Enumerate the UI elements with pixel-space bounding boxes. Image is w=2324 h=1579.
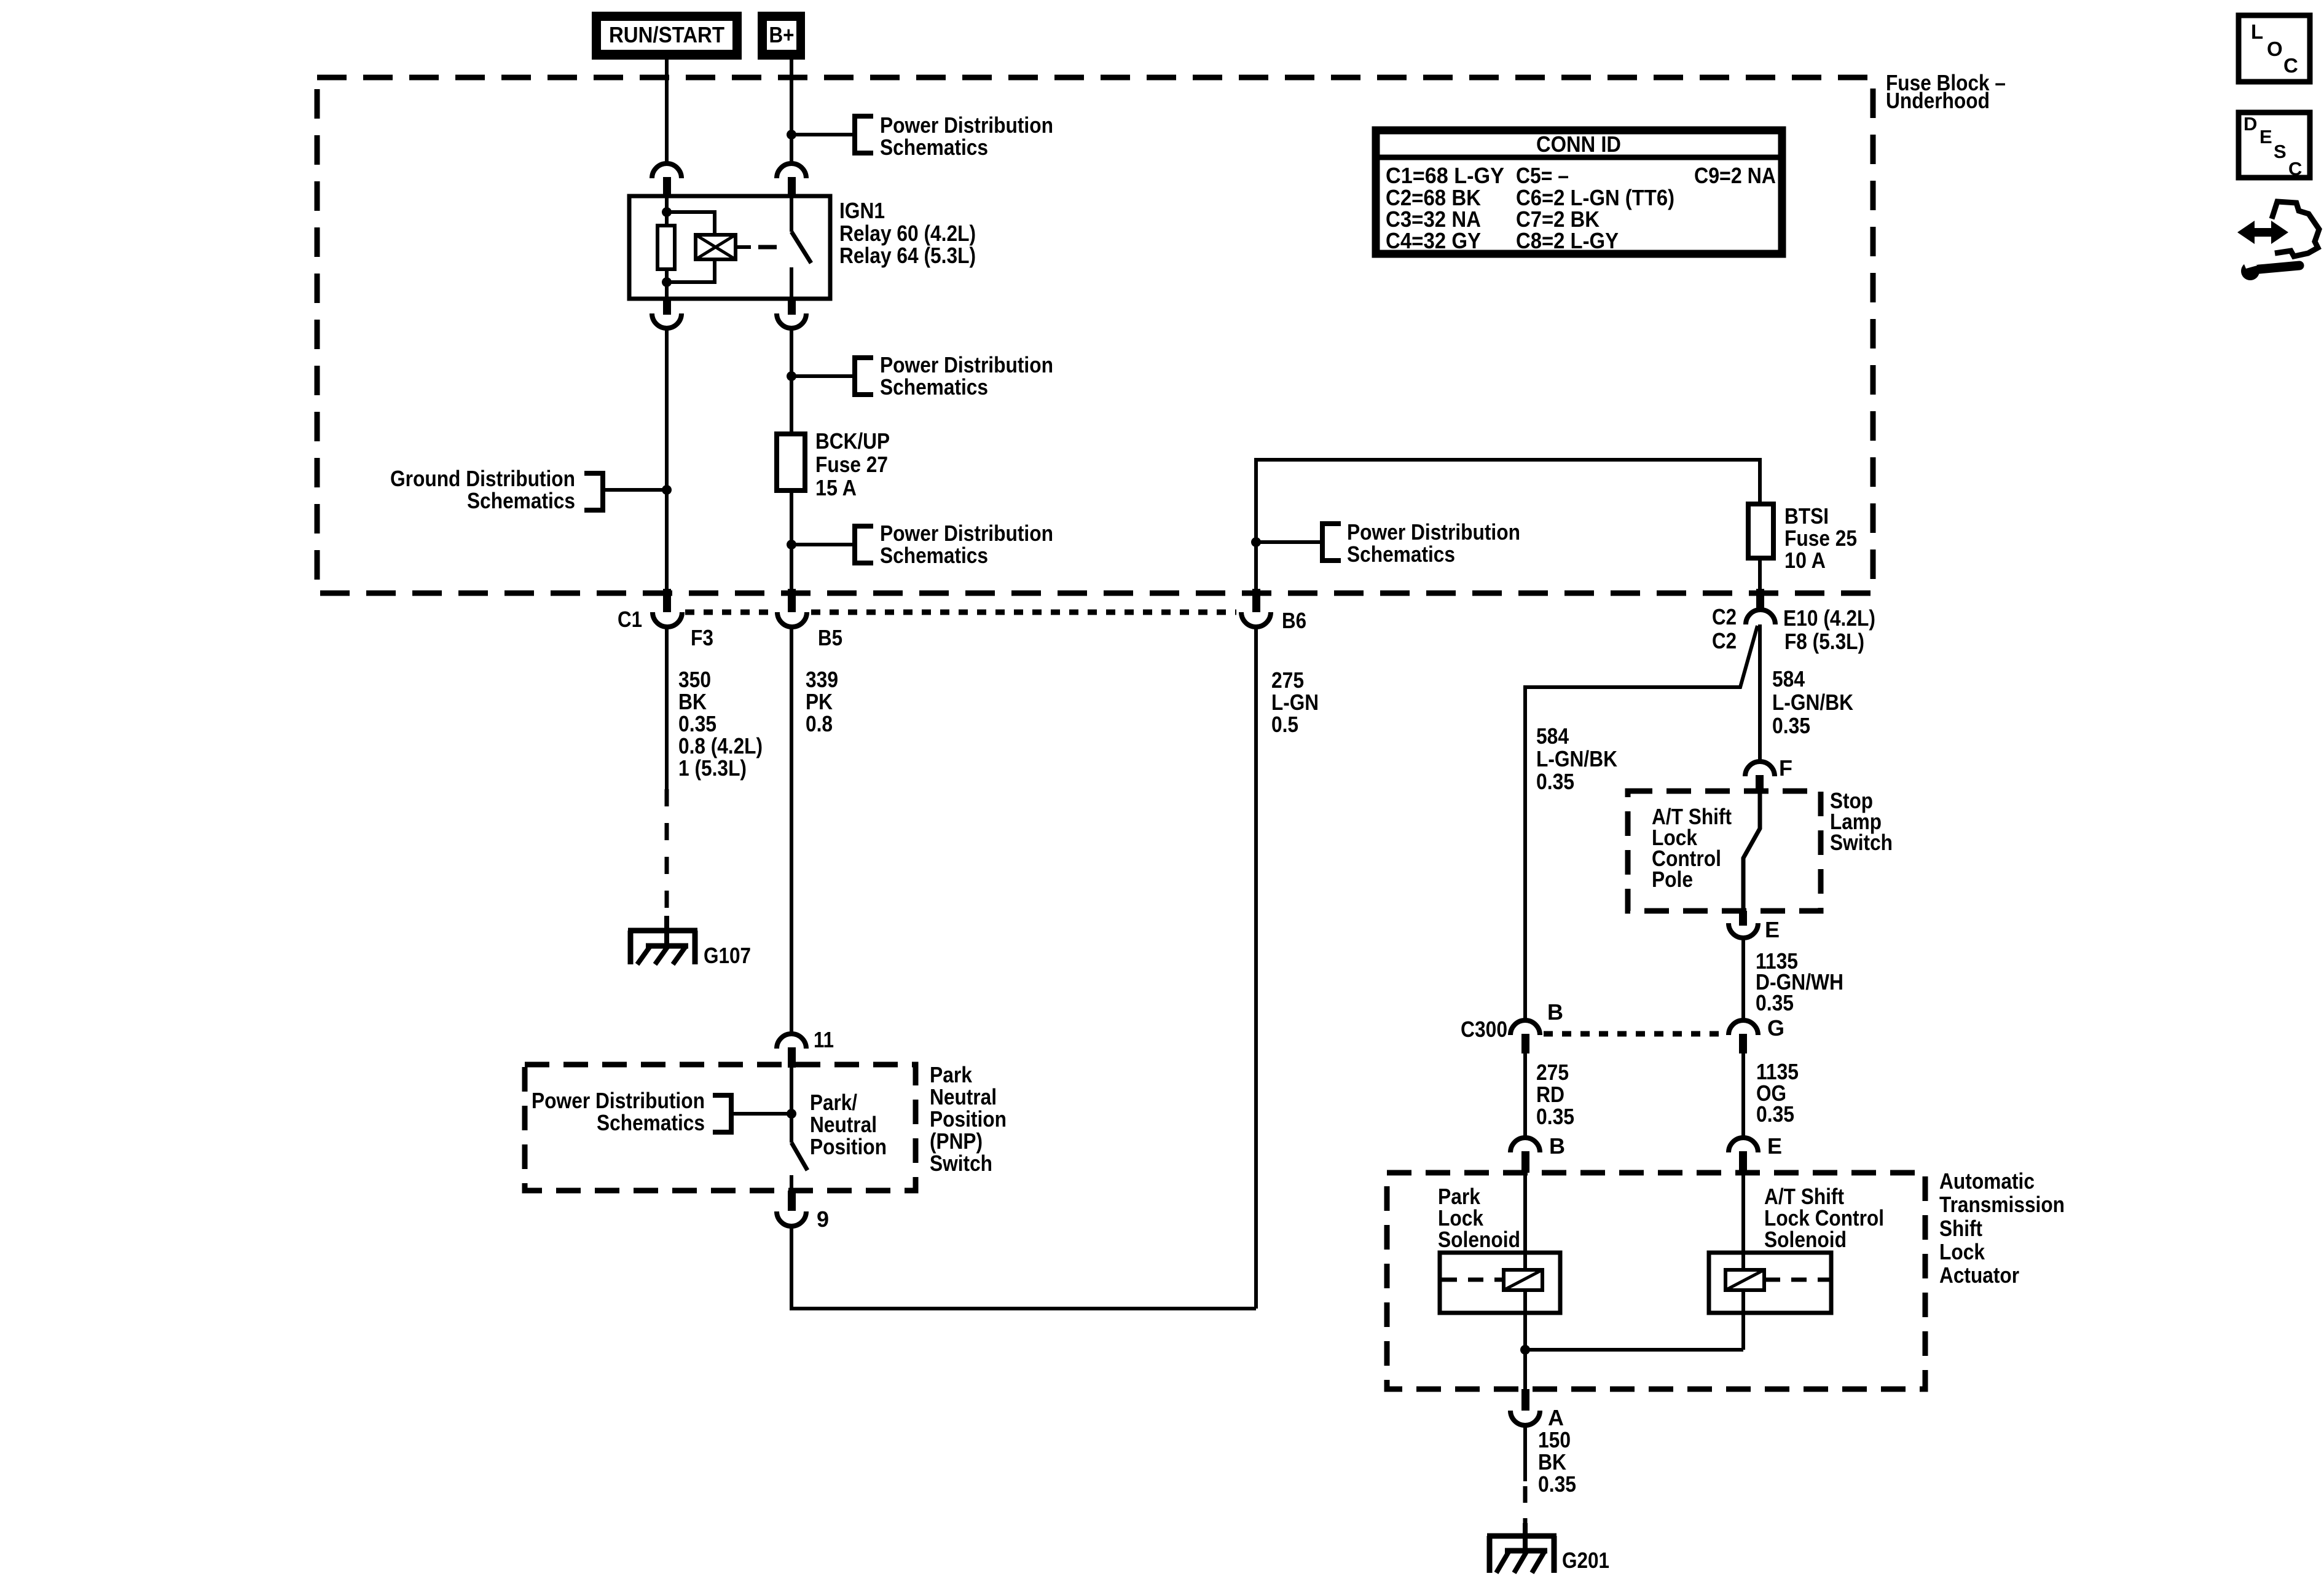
wire: RUN/START feed down	[665, 60, 669, 163]
svg-text:Underhood: Underhood	[1886, 88, 1990, 113]
relay resistor element	[658, 226, 675, 269]
svg-text:Relay 64 (5.3L): Relay 64 (5.3L)	[839, 243, 976, 268]
svg-text:A: A	[1548, 1405, 1564, 1430]
svg-text:C9=2 NA: C9=2 NA	[1694, 163, 1776, 188]
wire label 339 PK	[806, 667, 838, 736]
svg-text:Schematics: Schematics	[597, 1110, 705, 1135]
svg-text:0.35: 0.35	[1756, 990, 1794, 1015]
svg-text:L-GN/BK: L-GN/BK	[1772, 690, 1853, 715]
label: Fuse Block - Underhood	[1886, 70, 2006, 113]
stop lamp switch dashed box	[1628, 791, 1821, 911]
svg-text:Power Distribution: Power Distribution	[880, 521, 1053, 546]
wire: 350 BK dashed segment to ground	[665, 789, 669, 915]
PDS tap 5: Power Distribution Schematics (PNP)	[532, 1088, 791, 1135]
label: Automatic Transmission Shift Lock Actuator	[1939, 1168, 2065, 1288]
relay switch contact	[791, 196, 811, 299]
svg-text:9: 9	[817, 1207, 829, 1232]
svg-text:Transmission: Transmission	[1939, 1192, 2065, 1217]
A/T shift lock control solenoid box	[1709, 1253, 1831, 1313]
svg-text:CONN ID: CONN ID	[1536, 132, 1621, 157]
svg-text:PK: PK	[806, 689, 833, 714]
junction dot: solenoid commons	[1520, 1345, 1530, 1355]
wire: ignition output (left column) down to C1	[665, 328, 669, 589]
wire: B+ output (B5 column) down	[790, 328, 793, 589]
connector C1/F3 (fuse block bottom, left)	[653, 589, 682, 627]
svg-text:BTSI: BTSI	[1784, 503, 1829, 529]
DESC icon box	[2239, 112, 2310, 179]
wire label 275 RD	[1536, 1060, 1574, 1129]
connector C2 (fuse block bottom, right)	[1746, 589, 1775, 624]
wire: into park lock solenoid	[1523, 1173, 1527, 1350]
svg-text:0.35: 0.35	[1756, 1101, 1794, 1127]
GDS tap: Ground Distribution Schematics	[390, 466, 667, 513]
PNP switch lower contact wire	[790, 1175, 793, 1191]
wire: 275 L-GN down from B6	[1254, 627, 1258, 1309]
connector B5 (fuse block bottom)	[777, 589, 807, 627]
svg-text:Park: Park	[930, 1062, 973, 1087]
label: Park Lock Solenoid	[1438, 1184, 1520, 1252]
svg-text:Position: Position	[810, 1134, 887, 1159]
svg-text:B+: B+	[769, 22, 795, 47]
connector pin B (actuator)	[1510, 1133, 1565, 1173]
svg-text:IGN1: IGN1	[839, 198, 885, 223]
CONN ID table	[1376, 130, 1782, 254]
svg-text:Neutral: Neutral	[810, 1112, 877, 1137]
park lock solenoid box	[1440, 1253, 1560, 1313]
svg-text:Fuse 27: Fuse 27	[815, 452, 888, 477]
connector pin A (actuator bottom)	[1510, 1389, 1564, 1430]
wire: 584 right branch down to stop lamp switch	[1758, 624, 1762, 763]
svg-text:Schematics: Schematics	[880, 374, 988, 400]
connector C300 pin G (top half)	[1729, 1015, 1784, 1053]
connector row dotted line (fuse block C1)	[685, 610, 1236, 615]
svg-text:Switch: Switch	[930, 1151, 992, 1176]
svg-text:C2: C2	[1712, 604, 1737, 629]
svg-text:L-GN/BK: L-GN/BK	[1536, 746, 1617, 771]
svg-text:C: C	[2283, 54, 2298, 77]
svg-text:350: 350	[678, 667, 711, 692]
svg-text:0.35: 0.35	[1538, 1471, 1576, 1497]
wire label 1135 D-GN/WH	[1756, 948, 1843, 1015]
connector: RUN/START into relay (female arc + male stub)	[652, 163, 681, 196]
svg-text:Solenoid: Solenoid	[1764, 1227, 1847, 1252]
wire label 1135 OG	[1756, 1059, 1799, 1127]
svg-text:0.35: 0.35	[1772, 713, 1810, 738]
relay labels IGN1 / Relay 60 / Relay 64	[839, 198, 976, 268]
connector pin E (actuator)	[1729, 1133, 1782, 1173]
svg-text:Solenoid: Solenoid	[1438, 1227, 1520, 1252]
svg-text:Schematics: Schematics	[467, 488, 575, 513]
wire label 150 BK	[1538, 1427, 1576, 1497]
svg-text:F8 (5.3L): F8 (5.3L)	[1784, 629, 1864, 654]
svg-text:Pole: Pole	[1652, 867, 1693, 892]
power feed box B+	[758, 12, 805, 60]
connector pin E (stop lamp switch bottom)	[1729, 911, 1780, 942]
svg-text:L: L	[2251, 20, 2263, 43]
svg-text:RUN/START: RUN/START	[609, 22, 724, 47]
svg-text:11: 11	[814, 1027, 834, 1052]
svg-text:C: C	[2288, 158, 2302, 179]
wire label 275 L-GN	[1271, 667, 1319, 737]
relay coil element (box with X)	[696, 235, 751, 259]
svg-text:E: E	[2259, 126, 2272, 148]
svg-text:150: 150	[1538, 1427, 1571, 1452]
fuse BTSI Fuse 25 10 A	[1748, 503, 1857, 589]
svg-text:584: 584	[1772, 666, 1805, 691]
svg-text:C1=68 L-GY: C1=68 L-GY	[1386, 163, 1504, 188]
svg-text:C5= –: C5= –	[1516, 163, 1569, 188]
svg-text:O: O	[2267, 37, 2283, 60]
svg-text:B: B	[1549, 1133, 1565, 1159]
svg-text:Schematics: Schematics	[880, 543, 988, 568]
PNP switch dashed box	[525, 1065, 916, 1191]
svg-text:1 (5.3L): 1 (5.3L)	[678, 755, 747, 781]
connector: B+ into relay	[777, 163, 806, 196]
stop lamp switch pole	[1743, 793, 1760, 911]
label: Park/Neutral Position (inside)	[810, 1090, 887, 1159]
fuse BCK/UP Fuse 27 15 A	[777, 428, 890, 500]
connector pin F (stop lamp switch)	[1745, 755, 1792, 793]
wire: common down to pin A	[1523, 1350, 1527, 1389]
svg-text:0.35: 0.35	[1536, 769, 1574, 794]
relay coil branch wiring	[662, 196, 715, 299]
svg-text:BK: BK	[1538, 1449, 1566, 1475]
wire label 350 BK	[678, 667, 763, 781]
wire: 1135 OG down	[1741, 1053, 1745, 1138]
connector: relay left output	[652, 299, 681, 328]
svg-text:Power Distribution: Power Distribution	[1347, 519, 1520, 545]
wire: solenoid common link	[1525, 1348, 1743, 1352]
svg-text:Ground Distribution: Ground Distribution	[390, 466, 575, 491]
ground G201	[1487, 1536, 1609, 1573]
svg-text:Fuse 25: Fuse 25	[1784, 526, 1857, 551]
wire: 339 PK down from B5 to PNP switch	[790, 627, 793, 1035]
PDS tap 2: Power Distribution Schematics	[791, 352, 1053, 400]
junction dot: PDS tap 3	[787, 540, 796, 549]
ground G107	[628, 931, 751, 968]
PNP switch internal wire	[790, 1068, 793, 1143]
connector B6 (fuse block bottom)	[1241, 589, 1306, 633]
svg-text:Power Distribution: Power Distribution	[532, 1088, 705, 1113]
PDS tap 4: Power Distribution Schematics (B6)	[1256, 519, 1520, 567]
svg-text:F3: F3	[691, 625, 713, 650]
svg-text:(PNP): (PNP)	[930, 1128, 983, 1154]
svg-text:584: 584	[1536, 723, 1569, 749]
wire: 584 branch diagonal to left leg	[1525, 626, 1757, 1022]
relay IGN1 box	[629, 196, 830, 299]
svg-text:Lock: Lock	[1939, 1239, 1985, 1264]
LOC icon box	[2239, 15, 2310, 82]
svg-text:C1: C1	[618, 607, 642, 632]
junction dot: PDS tap 4	[1251, 537, 1261, 547]
wire: B+ feed down	[790, 60, 793, 163]
connector C300 pin B (top half)	[1510, 1020, 1540, 1053]
svg-text:0.8 (4.2L): 0.8 (4.2L)	[678, 733, 763, 758]
wire: 150 BK down to G201	[1523, 1425, 1527, 1481]
svg-text:Park/: Park/	[810, 1090, 857, 1115]
wire: 350 BK down from C1	[665, 627, 669, 789]
svg-text:15 A: 15 A	[815, 475, 857, 500]
junction dot: PDS tap in PNP	[787, 1109, 796, 1119]
svg-text:B5: B5	[818, 625, 842, 650]
label: Park Neutral Position (PNP) Switch	[930, 1062, 1007, 1176]
svg-text:S: S	[2274, 141, 2287, 162]
svg-text:Position: Position	[930, 1106, 1007, 1132]
C300 connector dotted line	[1544, 1031, 1725, 1037]
svg-text:G: G	[1767, 1015, 1784, 1041]
svg-text:Neutral: Neutral	[930, 1084, 997, 1109]
svg-text:D: D	[2244, 113, 2257, 135]
actuator dashed box	[1387, 1173, 1925, 1389]
label: A/T Shift Lock Control Pole	[1652, 804, 1732, 892]
label: Stop Lamp Switch	[1830, 788, 1893, 855]
connector pin 9 (PNP switch)	[777, 1191, 829, 1232]
wire: 275 RD down	[1523, 1053, 1527, 1138]
svg-text:Actuator: Actuator	[1939, 1262, 2019, 1288]
svg-text:B: B	[1547, 999, 1563, 1025]
junction dot: ground distribution tap	[662, 485, 672, 495]
svg-text:Power Distribution: Power Distribution	[880, 112, 1053, 138]
PDS tap 3: Power Distribution Schematics	[791, 521, 1053, 568]
svg-text:Switch: Switch	[1830, 830, 1893, 855]
wire: into A/T solenoid	[1741, 1173, 1745, 1350]
svg-text:0.5: 0.5	[1271, 712, 1298, 737]
svg-text:0.8: 0.8	[806, 711, 833, 736]
junction dot: PDS tap 2	[787, 371, 796, 381]
wire label 584 L-GN/BK (right branch)	[1772, 666, 1853, 738]
PNP switch blade	[791, 1143, 807, 1170]
connector: relay right output	[777, 299, 806, 328]
svg-text:0.35: 0.35	[1536, 1104, 1574, 1129]
svg-text:C300: C300	[1461, 1017, 1507, 1042]
svg-text:Relay 60 (4.2L): Relay 60 (4.2L)	[839, 221, 976, 246]
svg-text:339: 339	[806, 667, 838, 692]
svg-text:Schematics: Schematics	[1347, 541, 1455, 567]
fuse block underhood dashed box	[317, 77, 1873, 593]
svg-text:275: 275	[1271, 667, 1304, 693]
service icon: double arrow, part outline, wrench	[2237, 202, 2319, 280]
svg-text:Shift: Shift	[1939, 1216, 1982, 1241]
svg-text:BK: BK	[678, 689, 707, 714]
wire: pin 9 down and right to 275 L-GN	[791, 1226, 1256, 1309]
connector pin 11 (PNP switch)	[777, 1027, 834, 1068]
svg-text:C2: C2	[1712, 628, 1737, 653]
svg-text:C4=32 GY: C4=32 GY	[1386, 228, 1481, 253]
wire: 1135 D-GN/WH down	[1741, 938, 1745, 1022]
svg-text:Schematics: Schematics	[880, 135, 988, 160]
svg-text:0.35: 0.35	[678, 711, 716, 736]
svg-text:L-GN: L-GN	[1271, 690, 1319, 715]
relay actuation dashed link	[758, 245, 787, 250]
svg-text:C8=2 L-GY: C8=2 L-GY	[1516, 228, 1619, 253]
svg-text:Power Distribution: Power Distribution	[880, 352, 1053, 377]
bus wire inside fuse block (B6 to BTSI)	[1256, 460, 1760, 589]
svg-text:G107: G107	[704, 943, 751, 968]
svg-text:BCK/UP: BCK/UP	[815, 428, 890, 454]
svg-text:10 A: 10 A	[1784, 548, 1826, 573]
label C2 C2	[1712, 604, 1737, 653]
label: A/T Shift Lock Control Solenoid	[1764, 1184, 1884, 1252]
svg-text:E: E	[1767, 1133, 1782, 1159]
svg-text:E10 (4.2L): E10 (4.2L)	[1783, 605, 1875, 631]
label E10 (4.2L) / F8 (5.3L)	[1783, 605, 1875, 654]
PDS tap 1: Power Distribution Schematics (B+ top)	[791, 112, 1053, 160]
svg-text:F: F	[1779, 755, 1792, 781]
junction dot: B+ PDS tap	[787, 130, 796, 140]
power feed box RUN/START	[592, 12, 742, 60]
svg-text:Automatic: Automatic	[1939, 1168, 2035, 1194]
wire label 584 L-GN/BK (left branch)	[1536, 723, 1617, 794]
svg-text:RD: RD	[1536, 1082, 1564, 1107]
svg-text:275: 275	[1536, 1060, 1569, 1085]
svg-text:B6: B6	[1282, 608, 1306, 633]
svg-text:G201: G201	[1562, 1548, 1609, 1573]
svg-text:E: E	[1765, 917, 1780, 942]
